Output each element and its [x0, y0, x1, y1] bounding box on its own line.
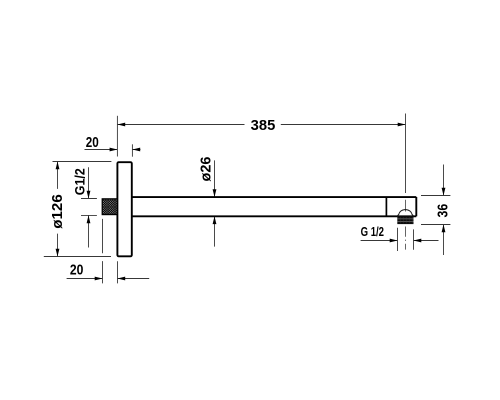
dim 20 top ext right [131, 144, 133, 156]
svg-text:20: 20 [86, 135, 99, 151]
arrow dim o26 top [213, 189, 217, 197]
flange (side view) [117, 162, 131, 256]
arrowheads [56, 123, 446, 281]
arrow dim 20 bottom right [117, 277, 125, 281]
dim 20 bottom ext right [117, 261, 119, 283]
arrow dim 20 top left [110, 148, 118, 152]
arrow dim 385 right tip [398, 123, 406, 127]
svg-text:ø126: ø126 [50, 194, 66, 229]
svg-text:G 1/2: G 1/2 [361, 224, 384, 239]
end piece divider [385, 197, 387, 216]
svg-text:36: 36 [435, 204, 451, 218]
arrow dim G1/2 left bottom [87, 215, 91, 223]
arrow dim o126 top [56, 162, 60, 170]
arrow dim G1/2 right right [414, 239, 422, 243]
dim 20 bottom ext left [102, 219, 104, 284]
dim 20 top lines [85, 149, 141, 151]
svg-text:20: 20 [70, 263, 84, 279]
centerline outlet axis [405, 200, 407, 250]
arrow dim 385 left tip [117, 123, 125, 127]
dim 385 line [117, 124, 405, 126]
svg-text:ø26: ø26 [198, 157, 214, 182]
dimension line work [44, 114, 451, 284]
arrow dim 20 top right [132, 148, 140, 152]
threaded inlet stub (hatched) [102, 199, 117, 215]
dim o126 ext top [53, 161, 112, 163]
dim o126 line [57, 162, 59, 257]
arrow dim 36 bottom [442, 225, 446, 233]
outlet dome [397, 210, 414, 217]
svg-text:G1/2: G1/2 [72, 168, 87, 195]
dim o26 leader lines [214, 160, 216, 246]
dim G12 right line [361, 240, 439, 242]
dim 36 exts [421, 196, 450, 225]
shower arm tube bottom edge [132, 215, 417, 217]
dim 385 ext left [116, 116, 118, 157]
dim G12 right exts [398, 228, 414, 251]
dim 36 line [443, 165, 445, 256]
arrow dim o26 bottom [213, 216, 217, 224]
arrow dim 20 bottom left [95, 277, 103, 281]
arrow dim o126 bottom [56, 249, 60, 257]
dim 20 bottom lines [67, 278, 150, 280]
arrow dim G1/2 right left [390, 239, 398, 243]
shower arm tube top edge [132, 196, 417, 198]
arrow dim G1/2 left top [87, 191, 91, 199]
arrow dim 36 top [442, 188, 446, 196]
end piece right edge [415, 197, 417, 216]
dim 385 ext right [405, 114, 407, 194]
dim o126 ext bottom [44, 256, 111, 258]
threaded outlet stub [397, 216, 413, 224]
svg-text:385: 385 [251, 118, 276, 134]
dim G12 left exts [81, 199, 97, 216]
dim G12 left line [88, 167, 90, 247]
